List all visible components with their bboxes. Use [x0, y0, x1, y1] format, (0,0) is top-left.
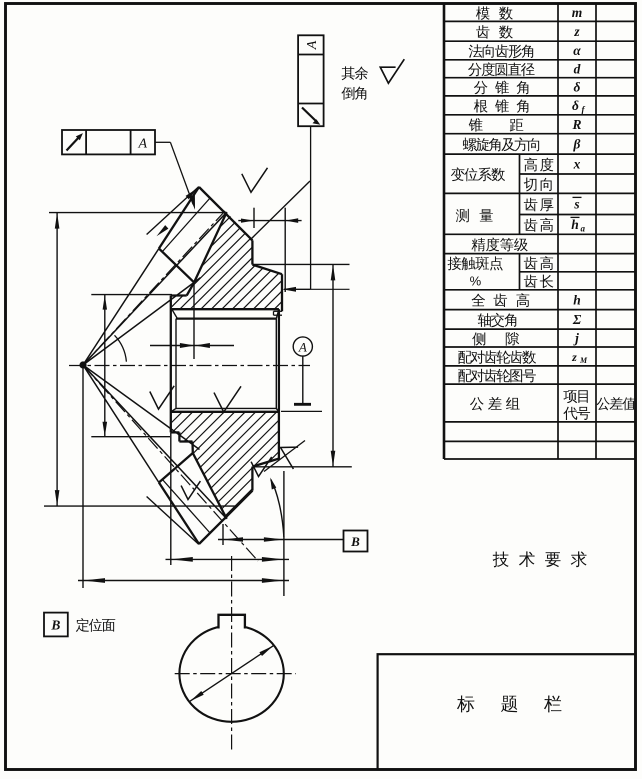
front step bottom h1	[171, 431, 180, 433]
bore surface bottom	[171, 411, 279, 413]
svg-text:δ: δ	[574, 79, 581, 94]
back cone surface (top)	[252, 265, 282, 275]
dim b2	[166, 558, 290, 560]
svg-text:s: s	[573, 197, 579, 212]
svg-text:R: R	[571, 117, 581, 132]
face cone ray (top, thin part)	[83, 249, 159, 366]
text: other chamfers line1	[342, 66, 368, 80]
bore chamfer diag top-left	[172, 309, 178, 318]
right face (top)	[281, 274, 283, 311]
dim b1	[218, 539, 284, 541]
extension for roughness (top)	[250, 181, 310, 240]
ext line hub top	[91, 294, 172, 296]
bore chamfer line bottom	[176, 407, 276, 409]
tooth band inner line (top)	[162, 198, 211, 253]
tolerance frame top vertical	[298, 35, 324, 126]
svg-text:M: M	[579, 356, 588, 365]
bore circle (aux view)	[179, 625, 283, 721]
tooth width dim line (bottom)	[147, 497, 199, 545]
dim b3	[78, 580, 289, 582]
pitch cone line (top, chain)	[83, 211, 225, 365]
tooth band inner line (bottom)	[162, 479, 211, 534]
rim corner vertical (top)	[251, 240, 253, 264]
roughness mark on tooth flank	[242, 168, 268, 193]
ext of bore bottom	[281, 410, 322, 412]
svg-text:Σ: Σ	[572, 312, 582, 327]
tooth tip line (bottom)	[159, 483, 199, 545]
ray to root large end (top)	[83, 212, 227, 365]
bore chamfer diag bottom-right	[276, 408, 279, 411]
ext line rim bottom	[254, 466, 352, 468]
svg-text:α: α	[573, 43, 581, 58]
right step lower line	[274, 314, 283, 316]
svg-text:A: A	[138, 137, 148, 152]
keyway bottom line	[172, 308, 279, 310]
tooth tip line (top)	[159, 187, 199, 249]
ray to root large end (bottom)	[83, 365, 227, 519]
front rim face / extension	[193, 283, 195, 359]
svg-text:β: β	[573, 137, 581, 152]
leader from top frame	[310, 126, 312, 289]
tooth width dim arrow small end	[157, 225, 169, 236]
face cone ray (bottom, thin part)	[83, 365, 159, 483]
bore chamfer diag top-right	[276, 309, 279, 318]
dim rim width (outside arrows)	[238, 220, 301, 222]
tooth width dimension line (top)	[147, 187, 199, 235]
keyway notch mask	[219, 610, 244, 629]
tooth root line (top)	[194, 212, 227, 282]
tooth small-end edge (bottom)	[159, 453, 193, 483]
pitch cone line (bottom, chain)	[83, 365, 258, 561]
ext v apex bottom	[82, 368, 84, 588]
svg-text:B: B	[350, 534, 360, 549]
front step top horizontal	[171, 294, 187, 296]
ext line top (tip diameter)	[49, 212, 227, 214]
roughness mark bottom flank	[181, 481, 200, 499]
svg-text:d: d	[574, 61, 581, 76]
tooth small-end edge (top)	[159, 249, 194, 283]
front step bottom h2	[179, 440, 192, 442]
roughness mark right face	[281, 447, 299, 469]
svg-text:A: A	[298, 339, 307, 354]
circle horizontal center line	[175, 673, 296, 675]
roughness mark bore bottom	[214, 386, 241, 412]
bore right chamfer line	[275, 319, 277, 409]
dim hub width line	[150, 345, 234, 347]
bore surface top	[176, 317, 276, 319]
roughness symbol overall	[380, 59, 404, 83]
right step vertical	[273, 311, 275, 315]
roughness mark lower rim	[251, 457, 272, 477]
front step bottom v2	[191, 442, 194, 454]
ray to root small end (top)	[83, 278, 201, 365]
svg-text:a: a	[581, 223, 586, 233]
roughness mark left face	[150, 386, 174, 409]
svg-text:m: m	[572, 5, 583, 20]
svg-text:B: B	[50, 618, 60, 633]
hub right face	[278, 309, 280, 459]
text: technical requirements	[493, 551, 587, 567]
svg-text:%: %	[470, 273, 482, 288]
front step chamfer	[187, 283, 194, 296]
svg-text:z: z	[571, 350, 577, 364]
ext v right face bottom	[283, 471, 285, 596]
svg-text:j: j	[573, 331, 579, 346]
rim corner vertical (bottom)	[251, 467, 253, 491]
svg-text:f: f	[582, 104, 586, 114]
dim line left inner	[104, 295, 106, 437]
ext v from pitch large end	[222, 524, 224, 545]
svg-text:h: h	[573, 292, 581, 307]
text: other chamfers line2	[341, 87, 366, 100]
bore chamfer vertical (front)	[175, 319, 177, 409]
ext line rim width left	[253, 208, 255, 228]
gear parameter table grid	[444, 4, 635, 460]
pitch angle arc	[115, 335, 127, 361]
tolerance frame top-left	[62, 130, 155, 154]
tooth root line (bottom)	[193, 453, 227, 519]
svg-text:δ: δ	[572, 98, 579, 113]
dim line right (rim dia)	[332, 264, 334, 466]
svg-text:z: z	[573, 24, 580, 39]
ext line rim width right	[284, 208, 286, 292]
apex point	[79, 361, 86, 368]
text: locating face	[76, 618, 115, 632]
ext v hub face bottom	[170, 432, 172, 565]
curved leader from B	[271, 480, 284, 538]
ray to root small end (bottom)	[83, 365, 200, 450]
bore diameter dim (diagonal)	[190, 646, 273, 701]
back cone surface (bottom)	[252, 459, 279, 467]
tooth width dim arrow large end	[186, 188, 198, 199]
datum B frame	[344, 531, 368, 552]
ext line bottom-left (root)	[44, 505, 238, 507]
ext line rim top	[252, 263, 349, 265]
bore chamfer diag bottom-left	[171, 408, 176, 411]
datum B legend	[44, 613, 68, 637]
text: title bar	[457, 695, 561, 712]
svg-text:x: x	[573, 157, 581, 172]
tooth large-end edge (bottom)	[199, 491, 253, 544]
svg-text:A: A	[305, 40, 320, 50]
leader to frame B	[284, 539, 344, 541]
circle vertical center line	[231, 556, 233, 752]
hub front face	[170, 296, 172, 433]
keyway outline	[219, 615, 245, 629]
svg-text:h: h	[571, 217, 579, 232]
axis center line	[69, 365, 310, 367]
title block box	[378, 654, 636, 769]
right step upper line	[274, 310, 283, 312]
table symbol column	[571, 5, 589, 365]
datum A circle	[293, 337, 312, 404]
front step bottom v1	[178, 432, 180, 441]
tooth large-end edge (top)	[199, 187, 253, 240]
dim hub width arrows	[180, 343, 195, 348]
leader to tooth tip	[155, 141, 170, 143]
table row labels	[447, 6, 635, 420]
ext line hub bottom	[91, 436, 170, 438]
dim line left outer	[56, 213, 58, 507]
